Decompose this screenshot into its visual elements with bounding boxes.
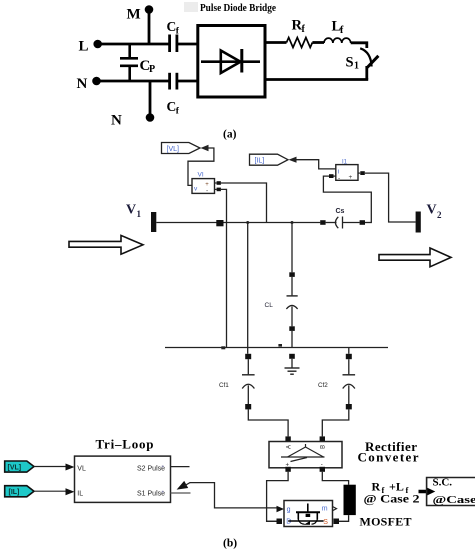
goto tag [VL] [162,143,201,154]
label Rectifier Conveter [358,439,419,465]
arrow to SC box [419,487,436,495]
svg-text:Pulse Diode Bridge: Pulse Diode Bridge [200,3,276,14]
block MOSFET [284,501,333,527]
lower bus [165,347,388,349]
wire bridge to Rf [265,41,287,44]
rectifier block [269,436,342,471]
svg-text:CL: CL [265,302,274,309]
capacitor Cf1 [219,354,255,410]
svg-text:@Case: @Case [433,494,475,506]
capacitor Cf top [167,19,180,52]
svg-text:@ Case 2: @ Case 2 [364,492,420,506]
wire [VL] to VI [188,148,214,185]
wire Rf to Lf [312,41,324,44]
svg-text:Tri–Loop: Tri–Loop [96,437,154,452]
wire VI plus to node [221,183,267,223]
S2 Pulse stub [171,466,190,468]
arrow into S1 Pulse [177,481,191,490]
svg-text:(a): (a) [223,129,237,141]
wire S1 path to MOSFET gate [190,483,278,508]
MOSFET S port [334,519,340,525]
block VI voltage measurement [192,172,215,195]
svg-text:1: 1 [354,61,359,72]
S.C. box [427,477,475,507]
big arrow V2 [379,248,451,267]
wire rectifier bottom-left to MOSFET D [267,472,289,522]
svg-text:1: 1 [137,209,142,219]
svg-text:Conveter: Conveter [358,450,419,465]
svg-text:Cs: Cs [336,208,345,215]
svg-text:[VL]: [VL] [167,146,180,153]
svg-text:V: V [126,203,136,218]
inductor Lf [324,19,351,44]
wire L [100,43,170,46]
diode D inside bridge [201,49,260,73]
junction to Cf1 [246,221,249,354]
svg-text:Cf1: Cf1 [219,382,229,389]
svg-text:N: N [111,113,122,129]
capacitor CL [265,272,298,347]
bus junction tick [221,346,225,349]
wire [VL] to Tri-Loop [34,464,75,471]
VI output ports [215,181,221,191]
arrow into [IL] [289,157,297,163]
svg-text:S.C.: S.C. [433,477,453,489]
svg-text:-: - [206,188,208,195]
node M [127,5,154,22]
wire [IL] to I1 [297,160,336,169]
terminal V2 [416,203,442,233]
svg-text:S: S [346,55,354,71]
svg-text:S1 Pulse: S1 Pulse [137,491,165,498]
S1 Pulse stub [171,492,191,494]
svg-text:Cf2: Cf2 [318,382,328,389]
capacitor Cs [320,208,372,229]
svg-text:-: - [338,175,340,182]
node L [79,39,102,55]
wire I1 right to V2 [365,173,416,222]
resistor Rf [287,18,313,48]
load bar Rf+Lf [344,485,356,515]
svg-text:[IL]: [IL] [255,158,265,165]
svg-text:IL: IL [77,491,83,498]
capacitor Cf2 [318,348,355,410]
wire Lf to switch [351,43,367,48]
capacitor Cf bottom [167,73,180,117]
wire D port left [267,520,277,522]
diode bridge box [198,26,265,98]
port on main wire [216,220,223,226]
wire Cf to bridge [177,43,198,46]
wire Cf2 to rectifier [322,409,349,436]
MOSFET m output port [333,507,337,511]
wire load bar to MOSFET S [339,515,349,521]
from tag [IL] teal [5,486,34,497]
svg-text:2: 2 [437,210,442,220]
arrow into [VL] [201,145,209,151]
svg-text:MOSFET: MOSFET [360,515,412,529]
junction to CL [291,221,294,272]
block I1 current measurement [336,160,358,183]
svg-text:S2 Pulse: S2 Pulse [137,465,165,472]
I1 ports [329,171,365,178]
svg-text:D: D [286,519,291,526]
wire I1 left to Cs right [323,176,371,222]
wire Cf bottom to bridge [177,80,198,83]
svg-text:N: N [77,76,88,92]
wire VI minus to bus [221,189,227,347]
terminal V1 [126,203,156,233]
node N bottom [111,81,154,129]
svg-text:g: g [287,507,291,514]
svg-text:A: A [287,445,293,449]
wire N [100,80,170,83]
wire [IL] to Tri-Loop [34,488,75,495]
wire rectifier bottom-right to load bar [322,472,348,485]
capacitor Cp [120,44,155,81]
label Rf+Lf @ Case 2 [364,480,420,506]
svg-text:(b): (b) [223,538,237,550]
node N left [77,76,101,92]
big arrow V1 [69,235,143,254]
from tag [VL] teal [5,461,34,472]
switch bottom lead [365,66,368,80]
wire M lead [148,13,151,45]
MOSFET gate arrow [277,506,285,512]
bottom return wire [265,78,368,81]
svg-text:m: m [322,506,328,513]
main node wire [156,222,320,224]
svg-text:VL: VL [77,465,86,472]
MOSFET D port [277,519,283,525]
block Tri-Loop [75,456,171,502]
svg-text:+: + [349,174,353,181]
svg-text:VI: VI [198,172,204,179]
title badge [184,2,198,12]
goto tag [IL] [250,154,289,165]
switch S1 [346,48,379,71]
svg-text:P: P [149,64,155,75]
svg-text:V: V [427,203,437,218]
svg-text:M: M [127,7,141,23]
wire Cf1 to rectifier [248,409,288,436]
svg-text:L: L [79,39,89,55]
svg-text:I1: I1 [342,160,348,166]
bus junction dot 2 [278,344,282,347]
svg-text:[IL]: [IL] [9,489,20,496]
svg-text:[VL]: [VL] [8,465,22,472]
svg-text:S: S [323,519,328,526]
svg-text:B: B [321,445,327,449]
ground [285,354,300,374]
